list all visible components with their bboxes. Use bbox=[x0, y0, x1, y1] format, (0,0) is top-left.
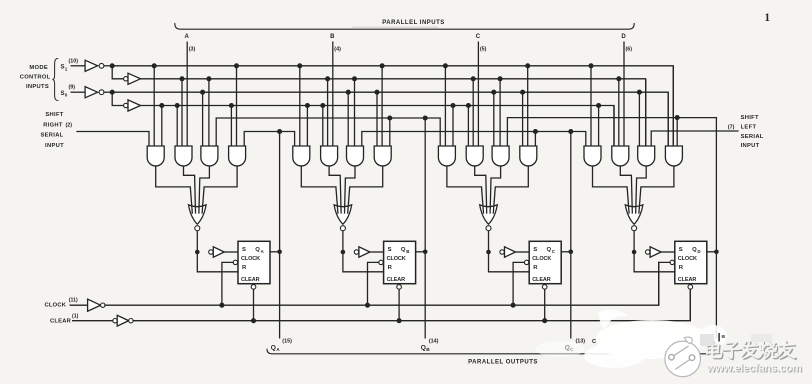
svg-text:(14): (14) bbox=[429, 338, 439, 344]
watermark bg patches bbox=[700, 334, 714, 346]
svg-text:CLOCK: CLOCK bbox=[387, 256, 406, 262]
wire A NOR out bbox=[196, 231, 198, 252]
wire B g4 taps bbox=[376, 92, 378, 146]
wire clear bus bbox=[133, 289, 690, 321]
node line1 junction bbox=[110, 63, 115, 68]
wire shift left serial input bbox=[651, 131, 738, 146]
net QD bbox=[507, 118, 716, 146]
svg-text:CLOCK: CLOCK bbox=[241, 256, 260, 262]
wire A clear bbox=[251, 285, 256, 290]
svg-text:S: S bbox=[388, 247, 392, 253]
parallel inputs bracket bbox=[175, 24, 634, 30]
wire A FF out bbox=[270, 251, 280, 253]
inverter A S bbox=[209, 250, 213, 254]
svg-text:Q: Q bbox=[271, 344, 276, 351]
svg-text:Q: Q bbox=[401, 247, 406, 253]
flip-flop D bbox=[675, 241, 707, 283]
inverter B S bbox=[354, 250, 358, 254]
svg-text:R: R bbox=[388, 265, 393, 271]
inverter S0b U4 bbox=[124, 103, 128, 107]
svg-text:R: R bbox=[242, 265, 247, 271]
svg-text:0: 0 bbox=[65, 93, 68, 98]
wire B NOR out bbox=[342, 231, 344, 252]
wire A g1 taps bbox=[153, 66, 155, 146]
AND gate B4 bbox=[374, 146, 391, 166]
AND gate D2 bbox=[612, 146, 629, 166]
wire A R bbox=[197, 252, 238, 272]
flip-flop C bbox=[529, 241, 561, 283]
svg-text:(7): (7) bbox=[728, 124, 735, 130]
AND gate C4 bbox=[520, 146, 537, 166]
svg-text:SERIAL: SERIAL bbox=[40, 133, 63, 139]
svg-text:B: B bbox=[330, 34, 335, 40]
wire S0 drop to buffer bbox=[112, 92, 123, 105]
wire S1 drop to buffer bbox=[112, 66, 123, 79]
wire shift right serial input bbox=[77, 132, 149, 147]
wire B FF out bbox=[416, 251, 426, 253]
wire C g1 taps bbox=[444, 66, 446, 146]
AND gate D1 bbox=[584, 146, 601, 166]
wire clear in bbox=[72, 320, 113, 322]
NOR gate D bbox=[625, 205, 643, 224]
wire B funnel bbox=[301, 166, 338, 213]
svg-text:S: S bbox=[679, 247, 683, 253]
wire A g2 taps bbox=[176, 106, 178, 147]
wire clock in bbox=[70, 304, 88, 306]
AND gate B1 bbox=[293, 146, 310, 166]
wire D FF out bbox=[707, 251, 717, 253]
wire input C bbox=[477, 42, 479, 147]
svg-text:S: S bbox=[533, 247, 537, 253]
svg-text:CLOCK: CLOCK bbox=[532, 256, 551, 262]
svg-text:INPUTS: INPUTS bbox=[26, 84, 49, 90]
svg-text:(15): (15) bbox=[282, 338, 292, 344]
node line3 junction bbox=[110, 90, 115, 95]
wire A funnel bbox=[156, 166, 193, 213]
svg-text:CLEAR: CLEAR bbox=[50, 318, 72, 324]
wire C g4 taps bbox=[522, 92, 524, 146]
inverter clock U5 bbox=[88, 299, 101, 311]
flip-flop B bbox=[384, 241, 416, 283]
svg-text:A: A bbox=[276, 347, 280, 353]
AND gate C3 bbox=[492, 146, 509, 166]
svg-text:(11): (11) bbox=[69, 298, 78, 304]
svg-text:(1): (1) bbox=[72, 313, 79, 319]
AND gate C2 bbox=[466, 146, 483, 166]
svg-text:(6): (6) bbox=[626, 47, 633, 53]
svg-text:PARALLEL INPUTS: PARALLEL INPUTS bbox=[382, 20, 445, 26]
wire control line 3 (S0 inverted) bbox=[112, 92, 668, 146]
svg-text:INPUT: INPUT bbox=[741, 143, 760, 149]
wire control line 2 (S1) bbox=[141, 79, 646, 146]
wire A g3 taps bbox=[202, 92, 204, 146]
wire D R bbox=[634, 252, 675, 272]
svg-text:Q: Q bbox=[547, 247, 552, 253]
wire B R bbox=[343, 252, 384, 272]
inverter S1 U1 bbox=[85, 60, 98, 71]
wire D clear bbox=[688, 285, 693, 290]
net QA bbox=[244, 132, 294, 147]
wire input D bbox=[623, 42, 625, 147]
wire D clock bbox=[670, 260, 674, 264]
wire input A bbox=[186, 42, 188, 147]
svg-text:CONTROL: CONTROL bbox=[20, 75, 51, 81]
AND gate D4 bbox=[665, 146, 682, 166]
wire D NOR out bbox=[633, 231, 635, 252]
svg-text:(4): (4) bbox=[334, 47, 341, 53]
wire C R bbox=[489, 252, 530, 272]
flip-flop A bbox=[238, 241, 270, 283]
wire B clear bbox=[397, 285, 402, 290]
wire C clear bbox=[542, 285, 547, 290]
white smudge patches bbox=[596, 320, 708, 356]
dark remnant near QD pin bbox=[718, 333, 720, 342]
wire A clock bbox=[233, 260, 237, 264]
wire S0 to inverter bbox=[71, 91, 86, 93]
wire QA vertical bbox=[279, 132, 281, 339]
wire control line 1 (S1 inverted) bbox=[112, 66, 673, 146]
wire line3 start bbox=[104, 91, 112, 93]
svg-text:CLEAR: CLEAR bbox=[532, 277, 551, 283]
svg-text:C: C bbox=[476, 34, 481, 40]
wire C funnel bbox=[447, 166, 484, 213]
net QC bbox=[362, 132, 586, 147]
wire D g2 taps bbox=[613, 106, 615, 147]
wire B g3 taps bbox=[347, 92, 349, 146]
wire line1 start bbox=[104, 65, 112, 67]
wire QB vertical bbox=[424, 118, 426, 339]
svg-text:Q: Q bbox=[421, 344, 426, 351]
inverter C S bbox=[500, 250, 504, 254]
net QB bbox=[216, 118, 440, 146]
wire S1 to inverter bbox=[71, 65, 86, 67]
svg-text:SERIAL: SERIAL bbox=[741, 134, 764, 140]
svg-text:PARALLEL OUTPUTS: PARALLEL OUTPUTS bbox=[468, 360, 538, 366]
wire C FF out bbox=[561, 251, 571, 253]
svg-text:RIGHT: RIGHT bbox=[43, 122, 63, 128]
inverter S1b U2 bbox=[124, 77, 128, 81]
AND gate B3 bbox=[347, 146, 364, 166]
svg-text:(9): (9) bbox=[69, 85, 76, 91]
svg-text:CLEAR: CLEAR bbox=[678, 277, 697, 283]
brace bbox=[52, 59, 57, 101]
AND gate A1 bbox=[147, 146, 164, 166]
wire C g3 taps bbox=[493, 92, 495, 146]
AND gate A3 bbox=[201, 146, 218, 166]
svg-text:SHIFT: SHIFT bbox=[741, 115, 759, 121]
svg-text:MODE: MODE bbox=[29, 65, 48, 71]
wire D g1 taps bbox=[590, 66, 592, 146]
inverter clear U6 bbox=[113, 319, 117, 323]
AND gate D3 bbox=[638, 146, 655, 166]
scan streak bbox=[352, 27, 438, 28]
AND gate B2 bbox=[321, 146, 338, 166]
svg-text:(5): (5) bbox=[480, 47, 487, 53]
wire QC vertical bbox=[570, 132, 572, 339]
wire A g4 taps bbox=[230, 106, 232, 147]
NOR gate B bbox=[334, 205, 352, 224]
AND gate C1 bbox=[438, 146, 455, 166]
svg-text:D: D bbox=[621, 34, 626, 40]
svg-text:Q: Q bbox=[255, 247, 260, 253]
wire input B bbox=[332, 42, 334, 147]
wire D funnel bbox=[593, 166, 630, 213]
svg-text:B: B bbox=[406, 249, 409, 254]
svg-text:B: B bbox=[426, 347, 430, 353]
svg-text:R: R bbox=[679, 265, 684, 271]
NOR gate C bbox=[480, 205, 498, 224]
svg-text:(2): (2) bbox=[66, 122, 73, 128]
AND gate A4 bbox=[229, 146, 246, 166]
svg-text:C: C bbox=[592, 339, 596, 345]
svg-text:(3): (3) bbox=[189, 47, 196, 53]
svg-text:www.elecfans.com: www.elecfans.com bbox=[706, 362, 802, 374]
svg-text:A: A bbox=[185, 34, 190, 40]
svg-text:INPUT: INPUT bbox=[45, 143, 64, 149]
AND gate A2 bbox=[175, 146, 192, 166]
wire B clock bbox=[379, 260, 383, 264]
parallel outputs bracket bbox=[267, 349, 718, 354]
svg-text:1: 1 bbox=[65, 66, 68, 71]
svg-text:LEFT: LEFT bbox=[741, 124, 757, 130]
wire D g3 taps bbox=[638, 92, 640, 146]
inverter S0 U3 bbox=[85, 87, 98, 98]
watermark text bbox=[707, 341, 797, 360]
wire B g2 taps bbox=[322, 106, 324, 147]
watermark logo bbox=[665, 341, 701, 377]
svg-text:1: 1 bbox=[764, 12, 770, 24]
wire clock bus bbox=[105, 262, 659, 305]
svg-text:SHIFT: SHIFT bbox=[45, 112, 63, 118]
NOR gate A bbox=[189, 205, 207, 224]
inverter D S bbox=[646, 250, 650, 254]
svg-text:CLOCK: CLOCK bbox=[45, 303, 67, 309]
wire C NOR out bbox=[488, 231, 490, 252]
svg-text:CLEAR: CLEAR bbox=[387, 277, 406, 283]
svg-text:Q: Q bbox=[692, 247, 697, 253]
wire B g1 taps bbox=[299, 66, 301, 146]
svg-text:CLOCK: CLOCK bbox=[678, 256, 697, 262]
svg-text:R: R bbox=[533, 265, 538, 271]
svg-text:CLEAR: CLEAR bbox=[241, 277, 260, 283]
wire C clock bbox=[524, 260, 528, 264]
svg-text:(10): (10) bbox=[69, 59, 79, 65]
wire QD vertical bbox=[715, 118, 717, 339]
wire C g2 taps bbox=[467, 106, 469, 147]
svg-text:S: S bbox=[242, 247, 246, 253]
wire D g4 taps bbox=[667, 92, 669, 146]
svg-text:D: D bbox=[697, 249, 700, 254]
wire control line 4 (S0) bbox=[141, 106, 615, 147]
